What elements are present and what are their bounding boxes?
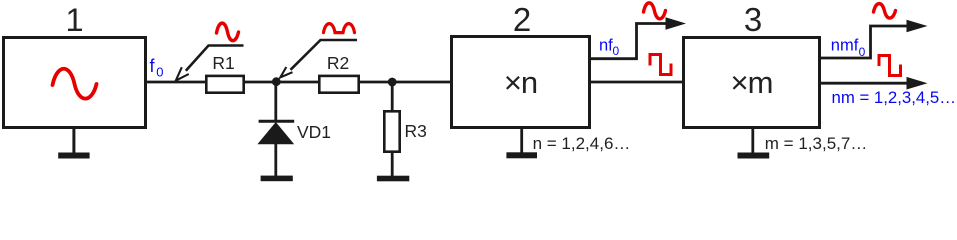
diode VD1: [259, 120, 295, 123]
wire R2 to block 2: [358, 81, 451, 84]
ground of block 3: [751, 128, 754, 153]
ground of R3: [377, 176, 409, 182]
ground of block 2: [520, 128, 523, 153]
svg-text:2: 2: [513, 1, 531, 38]
block 2 (frequency multiplier xn): [452, 37, 590, 128]
svg-text:nm = 1,2,3,4,5…: nm = 1,2,3,4,5…: [832, 88, 957, 107]
output tap nf0: wire: [590, 24, 666, 59]
block 3 (frequency multiplier xm): [684, 38, 820, 128]
svg-text:R2: R2: [327, 53, 349, 73]
svg-text:R3: R3: [405, 121, 427, 141]
ground of VD1: [261, 176, 293, 182]
svg-text:3: 3: [744, 1, 762, 38]
svg-text:nmf: nmf: [831, 37, 859, 55]
wire R3 to ground: [391, 151, 394, 176]
svg-text:n = 1,2,4,6…: n = 1,2,4,6…: [533, 134, 631, 153]
resistor R2: [319, 76, 358, 93]
wire VD1 to ground: [274, 143, 277, 176]
square wave symbol after block 2: [650, 55, 671, 75]
svg-text:VD1: VD1: [297, 122, 331, 142]
probe arrow 2 (open arrowhead to node A): [291, 40, 358, 70]
output tap nmf0: wire: [820, 26, 907, 58]
svg-text:0: 0: [156, 64, 163, 79]
wire R1 to R2: [244, 81, 320, 84]
block 1 (signal source): [4, 38, 146, 128]
resistor R1: [206, 76, 243, 93]
output tap nmf0: arrowhead: [907, 20, 928, 33]
ground of block 1: [72, 129, 75, 153]
resistor R3: [384, 111, 399, 151]
wire node A down to VD1: [274, 82, 277, 121]
svg-text:×n: ×n: [504, 65, 537, 100]
junction node A: [272, 77, 281, 86]
sine symbol at nmf0 output: [874, 4, 896, 18]
svg-text:R1: R1: [212, 53, 234, 73]
square wave symbol at block 3 output: [879, 56, 901, 76]
svg-text:1: 1: [65, 2, 83, 38]
clipped sine symbol above probe 2: [324, 24, 355, 33]
svg-text:0: 0: [613, 44, 620, 58]
svg-text:f: f: [150, 56, 156, 76]
output tap nf0: arrowhead: [666, 17, 687, 30]
wire node B down to R3: [391, 82, 394, 112]
svg-text:nf: nf: [599, 37, 613, 55]
probe arrow 1 (open arrowhead to wire): [186, 46, 244, 71]
main output wire with arrowhead: [820, 82, 907, 85]
wire block1 to R1: [146, 81, 206, 84]
sine symbol at nf0 output: [644, 3, 666, 19]
junction node B: [388, 78, 397, 87]
wire block 2 to block 3: [590, 81, 683, 84]
sine symbol above probe 1: [217, 23, 239, 41]
svg-text:×m: ×m: [731, 65, 773, 100]
svg-text:0: 0: [859, 45, 866, 59]
svg-text:m = 1,3,5,7…: m = 1,3,5,7…: [765, 134, 868, 153]
sine symbol inside block 1: [53, 69, 97, 99]
